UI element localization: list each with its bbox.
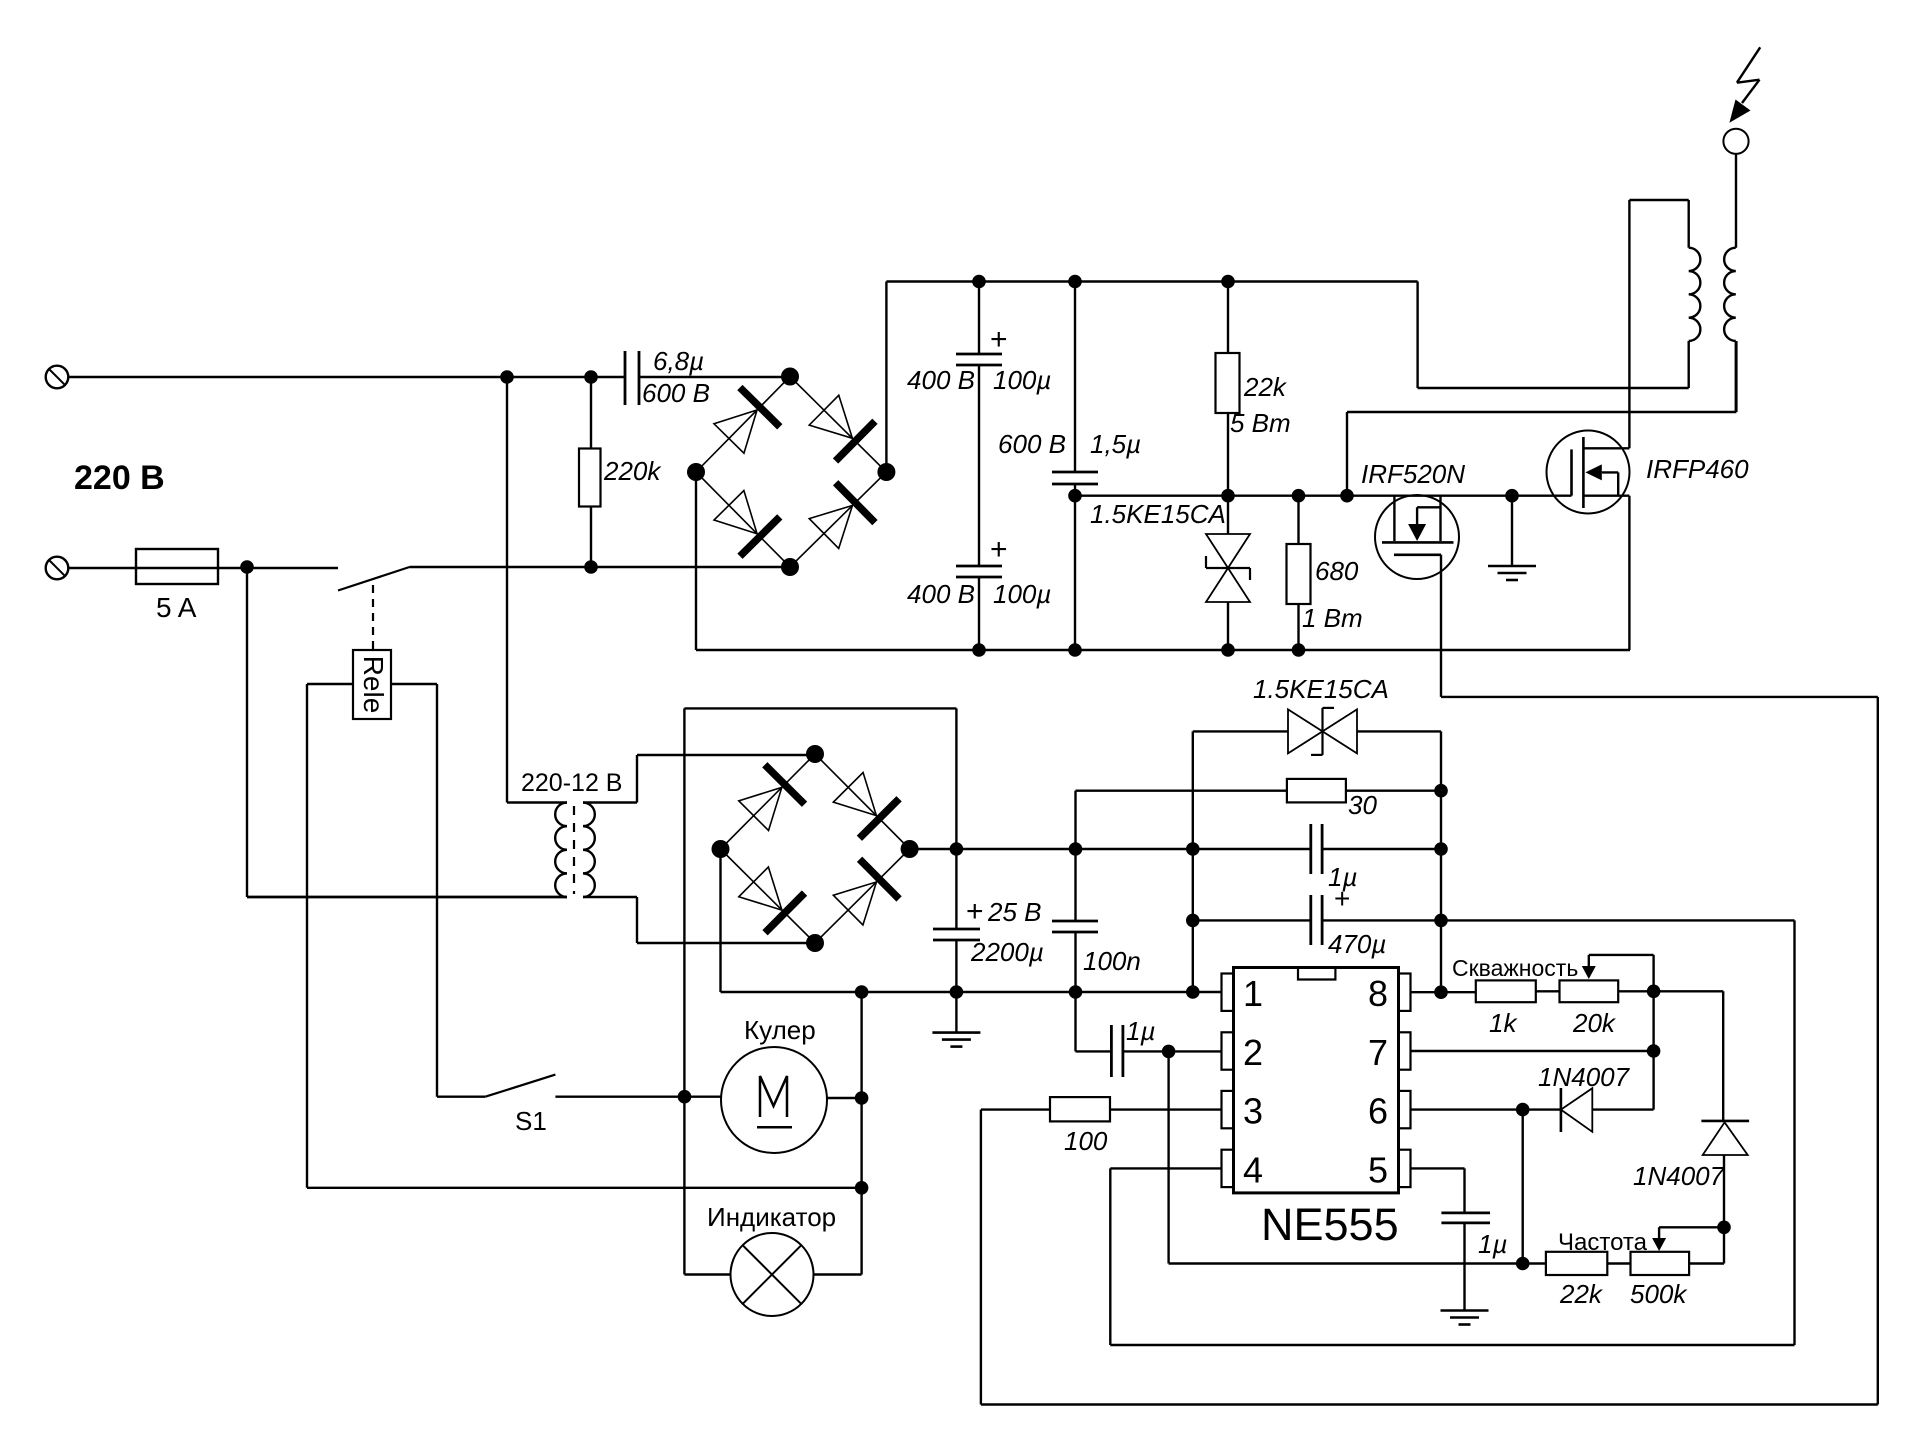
svg-text:1 Вт: 1 Вт bbox=[1302, 603, 1363, 633]
TVS 1.5KE15CA (HV driver) bbox=[1227, 496, 1229, 534]
gate bias row wire bbox=[1075, 495, 1572, 497]
resistor 22k (frequency) bbox=[1546, 1252, 1607, 1275]
resistor 220k bbox=[590, 377, 592, 449]
wire bridge2 DC- down bbox=[719, 849, 721, 992]
bridge rectifier VD1 (mains) node AC-bottom bbox=[781, 558, 799, 576]
wire 20k to diode2 bbox=[1722, 991, 1724, 1121]
svg-text:1N4007: 1N4007 bbox=[1538, 1062, 1631, 1092]
node gate row / 22k-TVS bbox=[1221, 489, 1235, 503]
node gate row / 680 bbox=[1292, 489, 1306, 503]
svg-text:+: + bbox=[990, 323, 1008, 356]
node 2200µ bottom bbox=[950, 985, 964, 999]
svg-text:6,8µ: 6,8µ bbox=[653, 346, 704, 376]
node 20k wiper join bbox=[1647, 985, 1661, 999]
svg-text:Кулер: Кулер bbox=[744, 1015, 816, 1045]
node cap C3 top bbox=[1068, 275, 1082, 289]
capacitor 6,8µ 600В bbox=[624, 351, 627, 405]
TVS row wire bbox=[1193, 730, 1288, 732]
node gate row / feedback bbox=[1340, 489, 1354, 503]
node C3 bottom bbox=[1068, 643, 1082, 657]
wire 470µ row to pin4 loop bbox=[1441, 919, 1795, 921]
capacitor 2200µ 25В bbox=[955, 849, 957, 929]
TVS 1.5KE15CA (12V rail) bbox=[1288, 709, 1323, 753]
node right bus 470µ bbox=[1434, 914, 1448, 928]
svg-text:NE555: NE555 bbox=[1261, 1199, 1399, 1250]
svg-text:Индикатор: Индикатор bbox=[707, 1202, 836, 1232]
bridge rectifier VD2 (12V) diode D2 (top-right) bbox=[833, 773, 876, 816]
HV- bottom rail bbox=[696, 649, 1630, 651]
capacitor 1µ (pin5) bbox=[1441, 1212, 1490, 1215]
node right bus 1µ bbox=[1434, 842, 1448, 856]
svg-text:220k: 220k bbox=[603, 456, 662, 486]
resistor 680 1Вт bbox=[1297, 496, 1299, 544]
bridge rectifier VD1 (mains) node DC-right bbox=[877, 463, 895, 481]
svg-text:S1: S1 bbox=[515, 1106, 547, 1136]
svg-text:IRFP460: IRFP460 bbox=[1646, 454, 1749, 484]
svg-text:680: 680 bbox=[1315, 556, 1359, 586]
svg-text:+: + bbox=[990, 533, 1008, 566]
relay Rele coil bbox=[372, 585, 374, 650]
500k wiper arrow bbox=[1659, 1226, 1724, 1228]
svg-text:+: + bbox=[1334, 883, 1350, 914]
NE555 pin 8 stub bbox=[1399, 974, 1411, 1011]
wire pin8 row bbox=[1411, 991, 1476, 993]
bridge rectifier VD2 (12V) node DC-left bbox=[712, 840, 730, 858]
TVS bidirectional zener 1.5KE15CA bbox=[1206, 534, 1250, 568]
spark / lightning arrow bbox=[1737, 47, 1760, 82]
HV+ rail to primary bbox=[1416, 282, 1418, 389]
resistor 100 bbox=[1110, 1108, 1222, 1110]
svg-text:4: 4 bbox=[1243, 1149, 1263, 1190]
node left bus gnd bbox=[1186, 985, 1200, 999]
svg-text:1µ: 1µ bbox=[1478, 1229, 1507, 1259]
svg-text:220 В: 220 В bbox=[74, 459, 165, 497]
svg-text:2: 2 bbox=[1243, 1032, 1263, 1073]
NE555 pin 7 stub bbox=[1399, 1032, 1411, 1069]
svg-text:20k: 20k bbox=[1572, 1008, 1617, 1038]
node cap C1 top bbox=[972, 275, 986, 289]
bridge rectifier VD2 (12V) node AC-bottom bbox=[806, 934, 824, 952]
svg-text:Скважность: Скважность bbox=[1452, 955, 1578, 981]
wire L to T1 primary bbox=[506, 377, 508, 803]
transformer T2 primary winding bbox=[1689, 248, 1701, 341]
diode 1N4007 (pin6) bbox=[1560, 1088, 1563, 1132]
switch S1 bbox=[437, 1095, 485, 1097]
NE555 pin 5 stub bbox=[1399, 1150, 1411, 1187]
svg-text:600 В: 600 В bbox=[998, 429, 1066, 459]
node left bus 470µ bbox=[1186, 914, 1200, 928]
bridge rectifier VD2 (12V) diode D1 (left-top) bbox=[739, 787, 782, 830]
input terminal X2 (neutral) bbox=[46, 557, 69, 580]
capacitor 470µ bbox=[1193, 919, 1311, 921]
NE555 pin 3 stub bbox=[1222, 1091, 1234, 1128]
node motor right bbox=[855, 1091, 869, 1105]
bridge rectifier VD2 (12V) outline bbox=[721, 754, 910, 943]
svg-text:IRF520N: IRF520N bbox=[1361, 459, 1465, 489]
potentiometer 20k bbox=[1560, 980, 1619, 1002]
svg-text:5: 5 bbox=[1368, 1149, 1388, 1190]
svg-text:220-12 В: 220-12 В bbox=[521, 769, 622, 797]
wire N switched bbox=[410, 566, 791, 568]
svg-text:400 В: 400 В bbox=[907, 579, 975, 609]
left bus wire bbox=[1192, 731, 1194, 992]
wire pin6 row bbox=[1411, 1108, 1523, 1110]
feedback wire to secondary bottom bbox=[1346, 412, 1348, 496]
wire bridge1 DC- down bbox=[695, 472, 697, 650]
node 680 bottom bbox=[1292, 643, 1306, 657]
diode 1N4007 (vertical) bbox=[1701, 1120, 1749, 1123]
node pin7 bbox=[1647, 1044, 1661, 1058]
svg-text:6: 6 bbox=[1368, 1091, 1388, 1132]
svg-text:8: 8 bbox=[1368, 973, 1388, 1014]
svg-text:Частота: Частота bbox=[1558, 1229, 1648, 1256]
svg-text:3: 3 bbox=[1243, 1091, 1263, 1132]
transformer T2 secondary winding bbox=[1724, 248, 1736, 341]
capacitor C3 1,5µ 600В bbox=[1074, 282, 1076, 473]
capacitor 1µ (rail) bbox=[1309, 824, 1312, 874]
svg-text:1: 1 bbox=[1243, 973, 1263, 1014]
capacitor 100n bbox=[1074, 849, 1076, 921]
svg-text:+: + bbox=[966, 895, 984, 928]
wire IRFP460 source to HV- rail bbox=[1628, 496, 1630, 650]
input terminal X1 (line) bbox=[46, 366, 69, 389]
wire diode1 cathode down bbox=[1521, 1110, 1523, 1264]
lamp bus wire right bbox=[860, 992, 862, 1275]
capacitor C2 100µ 400В (lower) bbox=[956, 565, 1002, 568]
wire mains L bbox=[68, 376, 625, 378]
bridge rectifier VD1 (mains) diode D4 (bottom-right) bbox=[809, 505, 852, 548]
wire to fuse bbox=[68, 567, 338, 569]
bridge rectifier VD1 (mains) diode D1 (left-top) bbox=[714, 410, 757, 453]
svg-text:5 A: 5 A bbox=[156, 592, 197, 623]
relay contact switch bbox=[338, 567, 410, 591]
discharge terminal bbox=[1723, 129, 1748, 154]
potentiometer 500k bbox=[1631, 1252, 1690, 1275]
node 100n bottom bbox=[1069, 985, 1083, 999]
svg-text:7: 7 bbox=[1368, 1032, 1388, 1073]
NE555 pin 6 stub bbox=[1399, 1091, 1411, 1128]
node gate row / C3 bbox=[1068, 489, 1082, 503]
NE555 pin 4 stub bbox=[1222, 1150, 1234, 1187]
resistor 30 bbox=[1076, 790, 1287, 792]
wire pin5 bbox=[1411, 1167, 1465, 1169]
node gate row / gnd stub bbox=[1505, 489, 1519, 503]
wire IRFP460 drain to primary top bbox=[1628, 200, 1630, 448]
node relay return bbox=[855, 1181, 869, 1195]
wire N to T1 primary bottom bbox=[246, 567, 248, 897]
node lamp bus gnd bbox=[855, 985, 869, 999]
HV+ top rail bbox=[886, 280, 1417, 282]
IC NE555 bbox=[1234, 968, 1399, 1193]
svg-text:30: 30 bbox=[1348, 790, 1377, 820]
svg-text:400 В: 400 В bbox=[907, 365, 975, 395]
bridge rectifier VD1 (mains) diode D3 (left-bottom) bbox=[714, 491, 757, 534]
wire +12 feed to cooler bbox=[955, 708, 957, 849]
svg-text:22k: 22k bbox=[1243, 372, 1288, 402]
node frequency row bbox=[1516, 1257, 1530, 1271]
svg-text:470µ: 470µ bbox=[1328, 929, 1386, 959]
svg-text:500k: 500k bbox=[1630, 1279, 1688, 1309]
node TVS bottom bbox=[1221, 643, 1235, 657]
ground (12V) bbox=[955, 992, 957, 1033]
svg-text:100: 100 bbox=[1064, 1126, 1108, 1156]
svg-text:25 В: 25 В bbox=[987, 897, 1042, 927]
wire IRF520N source loop to NE555 out bbox=[1440, 555, 1442, 697]
transistor IRF520N (MOSFET) bbox=[1375, 495, 1459, 579]
node 22k top bbox=[1221, 275, 1235, 289]
resistor 1k bbox=[1476, 980, 1536, 1002]
svg-text:1,5µ: 1,5µ bbox=[1090, 429, 1141, 459]
svg-text:1.5KE15CA: 1.5KE15CA bbox=[1253, 674, 1389, 704]
node pin6 / diode1 cathode bbox=[1516, 1103, 1530, 1117]
bridge rectifier VD1 (mains) outline bbox=[696, 377, 886, 568]
fuse 5 A bbox=[136, 549, 218, 584]
node 500k wiper join bbox=[1717, 1221, 1731, 1235]
bridge rectifier VD1 (mains) node DC-left bbox=[687, 463, 705, 481]
capacitor 1µ (pin2) bbox=[1074, 992, 1076, 1051]
node fuse output bbox=[240, 560, 254, 574]
wire pin4 reset loop bbox=[1110, 1167, 1221, 1169]
node pin2 bbox=[1162, 1045, 1176, 1059]
wire bridge2 DC+ rail bbox=[910, 848, 1311, 850]
wire relay coil left return bbox=[306, 684, 308, 1188]
bridge rectifier VD2 (12V) node AC-top bbox=[806, 745, 824, 763]
NE555 pin 1 stub bbox=[1222, 974, 1234, 1011]
node right bus 30 bbox=[1434, 784, 1448, 798]
right bus wire bbox=[1440, 731, 1442, 992]
svg-text:Rele: Rele bbox=[358, 656, 389, 714]
node 220k bottom bbox=[584, 560, 598, 574]
bridge rectifier VD1 (mains) node AC-top bbox=[781, 368, 799, 386]
node C1 bottom bbox=[972, 643, 986, 657]
node pin8 right bus bbox=[1434, 985, 1448, 999]
svg-text:100n: 100n bbox=[1083, 946, 1141, 976]
svg-text:600 В: 600 В bbox=[642, 378, 710, 408]
bridge rectifier VD2 (12V) node DC-right bbox=[901, 840, 919, 858]
wire relay coil right to S1 bbox=[436, 684, 438, 1097]
ground rail (12V section) bbox=[721, 991, 1222, 993]
svg-text:1.5KE15CA: 1.5KE15CA bbox=[1090, 499, 1226, 529]
ground (pin5) bbox=[1441, 1309, 1489, 1312]
NE555 pin 2 stub bbox=[1222, 1032, 1234, 1069]
20k wiper arrow bbox=[1588, 955, 1590, 968]
node motor left bbox=[678, 1090, 692, 1104]
svg-text:1N4007: 1N4007 bbox=[1633, 1161, 1726, 1191]
node left bus +12 bbox=[1186, 842, 1200, 856]
capacitor C1 100µ 400В (upper) bbox=[978, 282, 980, 355]
transistor IRFP460 (MOSFET) bbox=[1547, 431, 1630, 514]
bridge rectifier VD2 (12V) diode D4 (bottom-right) bbox=[833, 882, 876, 925]
bridge rectifier VD2 (12V) diode D3 (left-bottom) bbox=[739, 867, 782, 910]
resistor 22k 5Вт bbox=[1227, 282, 1229, 354]
bridge rectifier VD1 (mains) diode D2 (top-right) bbox=[809, 395, 852, 438]
wire pin3 output loop bbox=[981, 1108, 1050, 1110]
svg-text:2200µ: 2200µ bbox=[970, 937, 1044, 967]
wire pin7 row bbox=[1411, 1050, 1654, 1052]
node 100n top bbox=[1069, 842, 1083, 856]
node on L wire at x=591 bbox=[584, 370, 598, 384]
svg-text:1k: 1k bbox=[1489, 1008, 1518, 1038]
wire bridge1 DC+ up bbox=[885, 282, 887, 473]
svg-text:100µ: 100µ bbox=[993, 579, 1051, 609]
ground (driver) bbox=[1511, 496, 1513, 566]
svg-text:1µ: 1µ bbox=[1126, 1016, 1155, 1046]
node 2200µ top bbox=[950, 842, 964, 856]
svg-text:22k: 22k bbox=[1559, 1279, 1604, 1309]
wire pin2 to frequency row bbox=[1167, 1051, 1169, 1263]
node on L wire at x=507 bbox=[500, 370, 514, 384]
svg-text:100µ: 100µ bbox=[993, 365, 1051, 395]
svg-text:5 Вт: 5 Вт bbox=[1230, 408, 1291, 438]
